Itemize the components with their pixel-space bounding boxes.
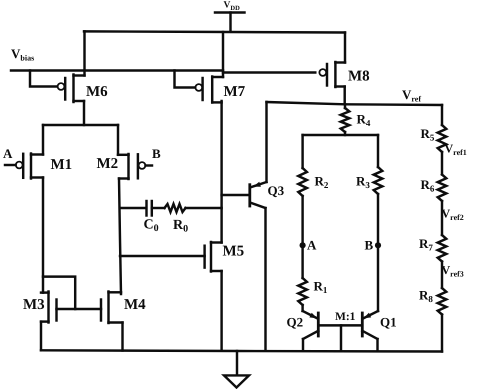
svg-text:B: B [152,146,161,161]
resistor R2 [298,135,329,196]
net Vbias label [11,46,34,63]
svg-text:R1: R1 [314,279,328,296]
wire R2 to node A [301,196,303,245]
wire ground rail [41,350,442,351]
net Vref1 label [445,142,467,158]
transistor Q3 [250,182,285,208]
input B label [152,146,161,161]
wire Vbias line [11,71,315,73]
wire M5 gate line [120,255,205,257]
svg-text:M8: M8 [348,69,370,85]
node B [365,238,382,253]
resistor R0 [165,204,189,235]
wire Q3 emitter to Vref [265,102,267,182]
wire M3 M4 gate line [57,308,102,310]
svg-text:Vref: Vref [402,87,421,104]
wire M6 source to rail [83,31,85,75]
wire Q3 collector to ground rail [264,208,266,351]
svg-text:Q2: Q2 [287,315,304,330]
wire R5 to R6 [441,152,443,175]
svg-text:M6: M6 [86,84,108,100]
svg-text:R3: R3 [356,174,370,191]
wire Q1 Q2 base tie [318,324,362,326]
transistor Q2 [287,311,319,339]
wire R3 to node B [377,194,379,245]
svg-text:M5: M5 [223,244,245,260]
svg-text:Vref3: Vref3 [442,263,464,279]
wire base node to ground rail [340,325,342,350]
wire node B to Q1 emitter [377,245,379,311]
resistor R7 [419,235,446,262]
svg-text:Q3: Q3 [268,183,285,198]
net Vref2 label [442,207,464,223]
svg-text:Vbias: Vbias [11,46,34,63]
ground [224,351,249,388]
resistor R4 [341,104,371,135]
svg-text:R4: R4 [357,112,371,129]
svg-text:M2: M2 [97,156,119,172]
svg-text:B: B [365,238,374,253]
transistor M3 [23,292,57,323]
svg-text:M4: M4 [124,297,146,313]
svg-text:R7: R7 [419,236,433,253]
svg-text:A: A [3,146,13,161]
net Vref label [402,87,421,104]
wire bandgap top node [303,134,378,136]
node A [300,238,318,253]
resistor R1 [298,245,328,311]
svg-text:Q1: Q1 [380,315,397,330]
svg-text:M3: M3 [23,297,45,313]
wire M6 drain to diff pair [83,101,85,125]
wire stage1 output to Co [120,207,146,209]
wire M8 source to rail [344,33,346,63]
svg-text:M1: M1 [51,157,73,173]
net Vref3 label [442,263,464,279]
svg-text:M7: M7 [224,84,246,100]
wire M7 source to rail [222,32,224,77]
wire M1 drain to M3 [42,178,44,293]
wire R6 to R7 [441,201,443,235]
resistor R6 [421,175,447,202]
svg-text:R2: R2 [315,174,329,191]
wire M3 source to ground rail [40,322,42,351]
transistor M2 [97,154,146,179]
label M:1 ratio [335,311,356,323]
resistor R8 [419,288,446,315]
wire Q2 collector to ground rail [302,339,304,351]
svg-text:R5: R5 [421,126,435,143]
resistor R5 [421,125,447,152]
svg-text:A: A [307,238,317,253]
wire R7 to R8 [441,262,443,289]
wire mirror diode tie [43,277,75,309]
transistor M4 [101,292,146,324]
svg-text:Vref2: Vref2 [442,207,464,223]
transistor M7 [195,77,245,103]
svg-text:Vref1: Vref1 [445,142,467,158]
capacitor C0 [144,201,159,234]
wire M8 drain to Vref [343,87,345,105]
transistor M5 [205,242,245,272]
wire Q1 collector to ground rail [376,339,378,351]
svg-text:M:1: M:1 [335,311,356,323]
wire input A lead [5,164,16,166]
transistor M8 [319,62,369,87]
svg-text:C0: C0 [144,218,159,235]
svg-text:R6: R6 [421,177,435,194]
svg-text:R0: R0 [173,218,188,235]
wire M6 gate tap from Vbias [30,71,57,87]
wire M7 gate tap from Vbias [175,71,196,88]
wire Vref to R5 [441,105,443,125]
svg-text:R8: R8 [419,288,433,305]
svg-text:VDD: VDD [224,1,241,13]
wire input B lead [146,164,153,166]
wire C0 to R0 [152,207,165,209]
wire Vref line [267,102,443,105]
transistor M1 [16,154,72,179]
wire stage2 output node [220,101,222,243]
wire R0 to stage2 output [186,207,222,209]
input A label [3,146,13,161]
transistor M6 [58,75,109,103]
resistor R3 [356,135,382,194]
wire M4 source to ground rail [121,323,123,351]
power VDD supply symbol [215,1,245,32]
wire M2 drain to M4 [119,179,121,295]
wire Q3 base lead [222,194,249,196]
wire M1 M2 common source node [43,125,118,155]
wire M5 source to ground rail [220,271,222,351]
transistor Q1 [362,311,396,339]
wire R8 to ground rail [441,315,443,352]
wire VDD top rail [84,31,345,32]
